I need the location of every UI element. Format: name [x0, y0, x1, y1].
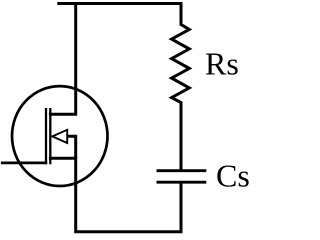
transistor Q1 gate bar — [45, 108, 47, 164]
wire top rail, resistor Rs zigzag and lead down to capacitor — [57, 4, 189, 171]
capacitor Cs top plate — [157, 169, 207, 172]
transistor Q1 gate lead wire — [1, 161, 47, 164]
svg-text:Rs: Rs — [205, 45, 239, 81]
capacitor Cs bottom plate — [157, 181, 207, 184]
transistor Q1 body wire — [67, 136, 76, 158]
transistor Q1 substrate arrow — [52, 130, 67, 143]
wire drain vertical with drain bar of transistor Q1 — [49, 4, 76, 115]
transistor Q1 source bar, source wire and wire bottom rail — [49, 158, 183, 232]
transistor Q1 envelope circle — [12, 86, 108, 186]
svg-text:Cs: Cs — [216, 158, 250, 194]
transistor Q1 channel bar — [49, 108, 51, 164]
wire capacitor bottom lead — [180, 182, 183, 232]
